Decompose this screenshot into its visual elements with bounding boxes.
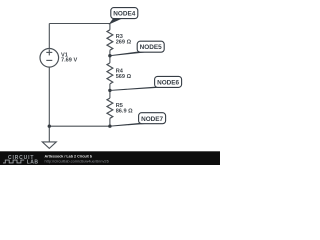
svg-text:NODE6: NODE6 xyxy=(157,79,179,86)
svg-text:http://circuitlab.com/c6uw4uer: http://circuitlab.com/c6uw4uer6nnv26 xyxy=(45,159,109,164)
svg-text:NODE4: NODE4 xyxy=(113,11,135,18)
svg-text:NODE7: NODE7 xyxy=(141,116,163,123)
svg-text:86.9 Ω: 86.9 Ω xyxy=(116,109,133,115)
svg-text:LAB: LAB xyxy=(27,160,39,165)
svg-text:7.69 V: 7.69 V xyxy=(61,58,77,64)
svg-text:569 Ω: 569 Ω xyxy=(116,74,132,80)
svg-text:269 Ω: 269 Ω xyxy=(116,39,132,45)
svg-text:NODE5: NODE5 xyxy=(140,44,162,51)
